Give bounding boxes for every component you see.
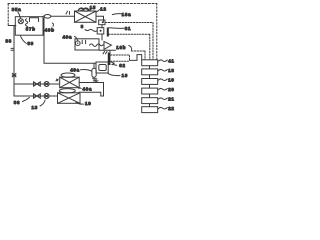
svg-text:21: 21 <box>168 97 174 102</box>
tick 71 <box>66 11 70 14</box>
leader 19b <box>158 79 167 81</box>
svg-text:19: 19 <box>168 78 174 83</box>
blower circle <box>76 41 81 46</box>
svg-text:18: 18 <box>168 68 174 73</box>
pipe branch A <box>14 83 60 85</box>
dashed border right <box>156 4 158 60</box>
svg-text:40a: 40a <box>83 86 93 91</box>
pump oval on water line <box>44 14 51 18</box>
control box 41 <box>142 60 158 66</box>
svg-text:12: 12 <box>100 7 106 12</box>
svg-text:49a: 49a <box>63 34 73 39</box>
dashed 16b vertical <box>144 51 146 60</box>
wire: left border to box <box>8 25 16 27</box>
svg-text:35a: 35a <box>12 7 22 12</box>
heater coil 37b <box>25 19 27 29</box>
leader 22 <box>158 107 167 109</box>
leader 21 <box>158 98 167 100</box>
compressor box 10 <box>96 62 108 73</box>
tick marks on left pipe <box>11 48 14 50</box>
svg-text:16a: 16a <box>122 12 132 17</box>
dashed signal line 2 <box>109 33 150 35</box>
connector <box>149 75 151 79</box>
compressor feed pipe <box>44 62 96 64</box>
svg-text:39: 39 <box>28 41 34 46</box>
leader 62 <box>111 62 117 65</box>
control box 19 <box>142 79 158 85</box>
dashed link to box column <box>111 55 130 60</box>
water pipe box35 to oval <box>43 15 44 17</box>
control box 20 <box>142 88 158 94</box>
svg-text:36: 36 <box>14 100 20 105</box>
expansion squiggle <box>93 78 98 82</box>
connector <box>149 94 151 98</box>
svg-text:20: 20 <box>168 87 174 92</box>
motor inner box <box>99 65 106 71</box>
leader 8 squiggle <box>85 29 97 31</box>
dashed 16b signal <box>132 50 146 52</box>
svg-text:62: 62 <box>119 63 125 68</box>
leader 36 <box>23 98 30 102</box>
ejector triangle 16b <box>104 41 111 49</box>
wire triangle to bar <box>109 51 111 54</box>
svg-text:38: 38 <box>6 39 12 44</box>
leader 10 <box>108 73 121 76</box>
leader 61 <box>109 27 124 30</box>
svg-text:8: 8 <box>81 24 84 29</box>
pipe branch B <box>14 95 58 97</box>
line under triangle <box>99 49 116 51</box>
dashed vertical 2 <box>149 34 151 59</box>
svg-text:22: 22 <box>168 106 174 111</box>
leader 39 <box>21 36 27 44</box>
svg-text:37b: 37b <box>26 26 36 31</box>
leader 41 <box>158 60 167 62</box>
inner detail box <box>30 18 39 22</box>
leader 19 <box>76 102 84 104</box>
suction wavy line <box>90 44 104 47</box>
valve 36 (bowtie) <box>34 94 41 98</box>
bus bar 61 <box>107 28 109 37</box>
svg-text:16b: 16b <box>116 45 126 50</box>
leader 49b <box>52 23 53 26</box>
leader 49c <box>75 36 78 41</box>
control box 18 <box>142 69 158 75</box>
svg-text:10: 10 <box>122 73 128 78</box>
fan ellipse HX2 <box>59 89 75 93</box>
left pipe vertical <box>13 26 15 97</box>
leader 16b <box>129 46 132 51</box>
sensor box A <box>99 20 105 25</box>
leader 15 <box>86 10 91 12</box>
pipe right of box 35 <box>43 18 45 63</box>
wire A to B <box>101 25 103 28</box>
leader 13 <box>40 100 45 106</box>
leader 12 <box>96 10 100 13</box>
leader tilde 40a <box>79 87 81 90</box>
leader 18 <box>158 69 167 71</box>
junction mark <box>56 79 58 81</box>
connector <box>149 104 151 107</box>
pipe HX1 out <box>79 83 103 97</box>
pump 35a circle <box>18 19 23 24</box>
valve 13a (bowtie) <box>34 82 41 86</box>
connector <box>149 66 151 69</box>
valve circle A <box>44 82 49 87</box>
dashed link lower <box>111 60 129 62</box>
leader 35a <box>18 12 21 18</box>
svg-text:61: 61 <box>125 26 131 31</box>
leader 16a <box>112 14 121 15</box>
dashed border left <box>7 4 9 26</box>
radiator HX12 crossed box <box>75 11 97 22</box>
wire B down <box>101 34 103 40</box>
leader 49a <box>81 69 92 71</box>
valve on left pipe <box>12 73 16 77</box>
connector <box>149 84 151 88</box>
fan ellipse HX1 <box>61 73 75 77</box>
wire: cylinder up <box>93 63 95 68</box>
svg-text:49a: 49a <box>70 68 80 73</box>
ticks 11 <box>82 40 85 43</box>
water pipe oval to HX12 <box>51 15 75 17</box>
heat exchanger HX1 crossed box <box>60 77 79 88</box>
step wire <box>130 55 142 61</box>
pump circle 13 <box>44 94 49 99</box>
control box 21 <box>142 98 158 104</box>
pipe HX12 out <box>96 16 104 21</box>
box 35 (heater unit) <box>15 17 43 36</box>
svg-text:41: 41 <box>168 59 174 64</box>
wire: squiggle down <box>93 81 95 84</box>
pipe HX2 out <box>79 92 104 96</box>
svg-text:49b: 49b <box>45 28 55 33</box>
dashed signal line 1 <box>105 22 153 24</box>
bus bar 62 <box>108 53 111 66</box>
dashed border top <box>8 3 157 5</box>
fan 15 swirl <box>78 8 89 11</box>
leader 20 <box>158 88 167 90</box>
blower unit box <box>75 39 99 50</box>
sensor box B <box>97 28 104 34</box>
dashed vertical 1 <box>152 23 154 60</box>
svg-text:13: 13 <box>32 105 38 110</box>
svg-text:15: 15 <box>90 5 96 10</box>
svg-text:19: 19 <box>85 101 91 106</box>
accumulator 49a cylinder <box>92 68 96 77</box>
heat exchanger HX2 crossed box <box>58 93 81 104</box>
hatch <box>103 51 107 53</box>
control box 22 <box>142 107 158 113</box>
